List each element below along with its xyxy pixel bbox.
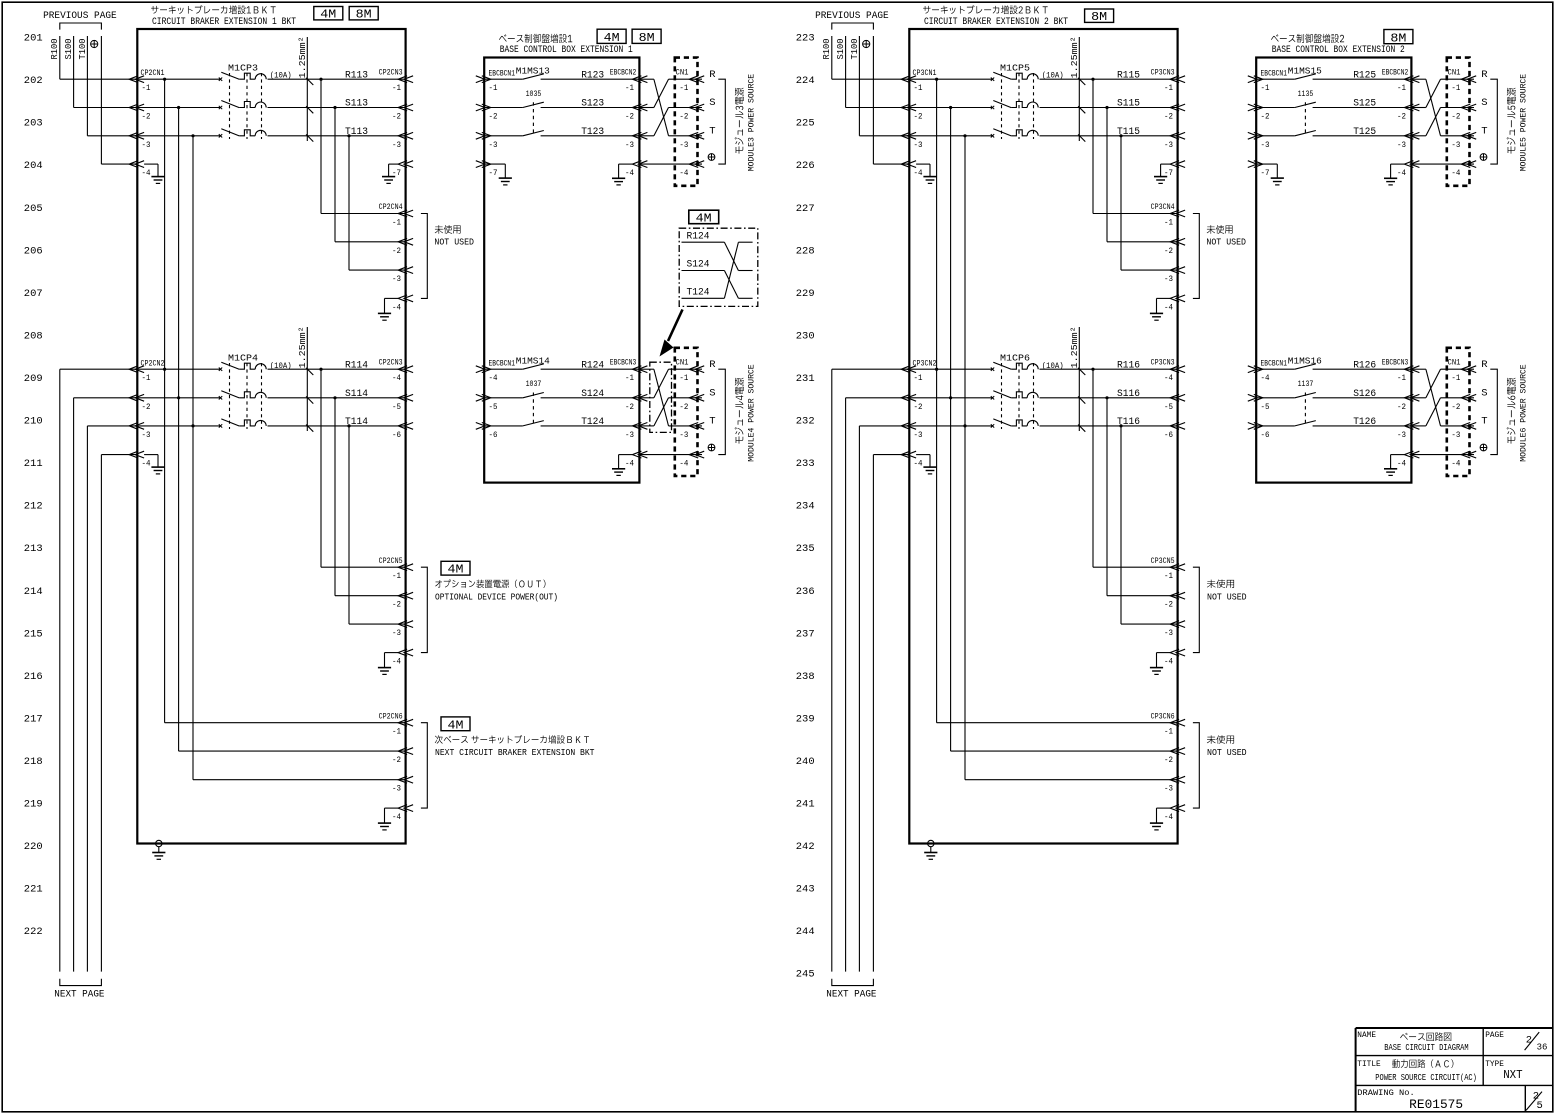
wire CP2CN2-3 to next page bbox=[87, 426, 137, 972]
label phase T bbox=[1481, 125, 1487, 137]
svg-text:-4: -4 bbox=[1451, 168, 1460, 178]
junction dot 3 on section2 input bbox=[963, 424, 966, 427]
wire crossover stubs (left) bbox=[639, 369, 654, 426]
connector CP3CN1 pin -3 bbox=[901, 132, 922, 149]
wire S126 bbox=[1313, 397, 1412, 399]
svg-text:-3: -3 bbox=[625, 430, 634, 440]
connector CN1 pin -2 bbox=[679, 394, 704, 411]
label S124 bbox=[581, 389, 604, 400]
svg-text:4M: 4M bbox=[604, 32, 620, 45]
wire T123 bbox=[541, 135, 640, 137]
wire internal bus 3 (input to CP2CN6) bbox=[193, 136, 406, 780]
svg-text:T100: T100 bbox=[850, 39, 860, 60]
breaker M1CP5 linkage bbox=[1002, 73, 1034, 139]
wire CN1-1 bbox=[669, 78, 703, 80]
wire CN1-3 bbox=[669, 135, 703, 137]
connector CP3CN6 pin -4 bbox=[1164, 805, 1185, 822]
connector EBCBCN1 pin -7 bbox=[1248, 161, 1270, 178]
wire tap to CP3CN4-2 bbox=[1107, 108, 1178, 242]
svg-text:236: 236 bbox=[796, 586, 815, 598]
label MODULE6 POWER SOURCE bbox=[1518, 364, 1528, 462]
wire CP2CN2-2 to breaker bbox=[137, 397, 220, 399]
wire tap to CP2CN5-1 bbox=[321, 369, 406, 567]
connector CP2CN1 pin -4 bbox=[129, 161, 150, 178]
label phase R bbox=[709, 69, 716, 81]
callout box 8M (base header) bbox=[632, 29, 661, 45]
junction dot 3 on section2 input bbox=[191, 424, 194, 427]
wire-size marker sec1 bbox=[297, 36, 308, 141]
svg-text:-1: -1 bbox=[392, 727, 401, 737]
svg-text:-2: -2 bbox=[1164, 755, 1173, 765]
connector EBCBCN3 pin -3 bbox=[625, 423, 647, 440]
label T116 bbox=[1117, 417, 1140, 428]
svg-text:S100: S100 bbox=[64, 39, 74, 60]
ground at CP3CN5-4 bbox=[1150, 653, 1170, 675]
svg-text:-4: -4 bbox=[489, 373, 498, 383]
label R116 bbox=[1117, 360, 1140, 371]
svg-text:218: 218 bbox=[24, 756, 43, 768]
svg-text:-2: -2 bbox=[625, 402, 634, 412]
connector CP2CN3 pin -6 bbox=[392, 423, 413, 440]
connector EBCBCN1 pin -1 bbox=[476, 76, 498, 93]
connector CN1 pin -2 bbox=[1451, 104, 1476, 121]
connector CP3CN2 name bbox=[913, 358, 937, 368]
module connector CN1 enclosure (dashed) bbox=[675, 58, 698, 186]
connector CP3CN3 pin -2 (sec1) bbox=[1164, 104, 1185, 121]
label M1CP4 bbox=[228, 353, 258, 364]
svg-text:-2: -2 bbox=[489, 112, 498, 122]
label R113 bbox=[345, 70, 368, 81]
label モジュール3電源 bbox=[735, 88, 744, 154]
next page bracket bbox=[60, 979, 102, 986]
wire CP3CN1-2 to breaker bbox=[909, 107, 992, 109]
label R126 bbox=[1353, 360, 1376, 371]
connector CN1 pin -1 bbox=[1451, 366, 1476, 383]
connector EBCBCN2 pin -3 bbox=[625, 132, 647, 149]
junction dot S116 bbox=[1105, 396, 1108, 399]
svg-text:204: 204 bbox=[24, 160, 43, 172]
svg-text:-1: -1 bbox=[1164, 571, 1173, 581]
svg-text:216: 216 bbox=[24, 671, 43, 683]
label M1CP3 bbox=[228, 62, 258, 73]
wire S123 bbox=[541, 107, 640, 109]
svg-text:R113: R113 bbox=[345, 70, 368, 81]
svg-text:POWER SOURCE CIRCUIT(AC): POWER SOURCE CIRCUIT(AC) bbox=[1375, 1073, 1477, 1083]
svg-text:M1CP4: M1CP4 bbox=[228, 353, 258, 364]
label R123 bbox=[581, 70, 604, 81]
svg-text:S116: S116 bbox=[1117, 389, 1140, 400]
wire CP3CN2-3 to breaker bbox=[909, 425, 992, 427]
svg-text:S100: S100 bbox=[836, 39, 846, 60]
line numbers 223-245 bbox=[796, 33, 815, 981]
wire crossover diagonal R to T bbox=[654, 369, 669, 426]
connector EBCBCN1 name (M1MS15) bbox=[1261, 69, 1288, 79]
svg-text:-2: -2 bbox=[142, 112, 151, 122]
svg-text:CP2CN2: CP2CN2 bbox=[141, 358, 165, 368]
svg-text:-1: -1 bbox=[392, 83, 401, 93]
wire crossover diagonal S to R bbox=[654, 79, 669, 107]
connector CP3CN3 name (sec1) bbox=[1151, 68, 1175, 78]
detail wire right 2 bbox=[738, 270, 752, 272]
wire T100 from previous page bbox=[87, 36, 137, 136]
svg-text:-7: -7 bbox=[1261, 168, 1270, 178]
svg-text:TITLE: TITLE bbox=[1357, 1059, 1380, 1069]
connector CP2CN5 pin -3 bbox=[392, 621, 413, 638]
label 1037 bbox=[526, 380, 542, 389]
connector CP2CN2 pin -4 bbox=[129, 451, 150, 468]
wire CN1-3 bbox=[1441, 425, 1475, 427]
svg-text:PREVIOUS PAGE: PREVIOUS PAGE bbox=[43, 11, 117, 22]
label T126 bbox=[1353, 417, 1376, 428]
earth symbol on PE bus bbox=[91, 40, 98, 47]
connector EBCBCN3 pin -2 bbox=[1397, 394, 1419, 411]
svg-text:NAME: NAME bbox=[1357, 1030, 1376, 1040]
svg-text:4M: 4M bbox=[448, 564, 464, 577]
ground at CP2CN6-4 bbox=[378, 808, 398, 830]
ground at EBCBCN1-7 bbox=[1256, 164, 1284, 185]
junction dot 1 on section1 input bbox=[935, 78, 938, 81]
svg-text:R115: R115 bbox=[1117, 70, 1140, 81]
connector CN1 pin -4 bbox=[1451, 161, 1476, 178]
svg-text:M1MS13: M1MS13 bbox=[516, 65, 550, 76]
connector EBCBCN3 pin -1 bbox=[625, 366, 647, 383]
highlight enclosure (dash-dot) on crossover bbox=[650, 362, 672, 432]
svg-text:230: 230 bbox=[796, 330, 815, 342]
svg-text:233: 233 bbox=[796, 458, 815, 470]
ground at EBCBCN1-7 bbox=[484, 164, 512, 185]
connector CP2CN4 name bbox=[379, 202, 403, 212]
svg-text:1037: 1037 bbox=[526, 380, 542, 389]
svg-text:PAGE: PAGE bbox=[1485, 1030, 1504, 1040]
label T100 bbox=[850, 39, 860, 60]
ground at EBCBCN2-4 bbox=[612, 164, 632, 185]
svg-text:-3: -3 bbox=[1164, 140, 1173, 150]
detail label S124 bbox=[687, 259, 710, 271]
connector CP2CN3 name (sec2) bbox=[379, 358, 403, 368]
connector CP2CN6 name bbox=[379, 711, 403, 721]
svg-text:224: 224 bbox=[796, 75, 815, 87]
connector CP3CN2 pin -2 bbox=[901, 394, 922, 411]
connector CP2CN6 pin -2 bbox=[392, 748, 413, 765]
svg-text:CN1: CN1 bbox=[676, 358, 689, 368]
connector EBCBCN1 name (M1MS16) bbox=[1261, 359, 1288, 369]
svg-text:-3: -3 bbox=[489, 140, 498, 150]
svg-text:8M: 8M bbox=[639, 32, 655, 45]
junction dot S114 bbox=[333, 396, 336, 399]
title block sheet 2/5 bbox=[1526, 1090, 1543, 1112]
wire crossover diagonal R to T bbox=[1426, 369, 1441, 426]
label T125 bbox=[1353, 127, 1376, 138]
module connector CN1 enclosure (dashed) bbox=[1447, 58, 1470, 186]
svg-text:S113: S113 bbox=[345, 99, 368, 110]
bracket CP3CN4 bbox=[1193, 214, 1199, 299]
svg-text:R125: R125 bbox=[1353, 70, 1376, 81]
label phase T bbox=[709, 416, 715, 428]
wire CP3CN2-1 to next page bbox=[832, 369, 910, 971]
svg-text:NOT USED: NOT USED bbox=[1206, 237, 1246, 248]
svg-text:T100: T100 bbox=[78, 39, 88, 60]
label earth symbol CN1 bbox=[708, 154, 715, 161]
svg-text:-1: -1 bbox=[914, 373, 923, 383]
connector CP3CN3 name (sec2) bbox=[1151, 358, 1175, 368]
svg-text:DRAWING No.: DRAWING No. bbox=[1357, 1088, 1414, 1098]
detail wire R124 left bbox=[682, 241, 725, 243]
junction dot 1 on section2 input bbox=[935, 368, 938, 371]
wire tap to CP3CN5-1 bbox=[1093, 369, 1178, 567]
label T100 bbox=[78, 39, 88, 60]
svg-text:-3: -3 bbox=[914, 430, 923, 440]
wire PE from previous page bbox=[101, 36, 137, 164]
connector CN1 pin -4 bbox=[679, 161, 704, 178]
connector EBCBCN2 pin -2 bbox=[625, 104, 647, 121]
svg-text:CP2CN3: CP2CN3 bbox=[379, 358, 403, 368]
svg-text:-5: -5 bbox=[489, 402, 498, 412]
svg-text:-2: -2 bbox=[1164, 600, 1173, 610]
svg-text:-1: -1 bbox=[142, 83, 151, 93]
svg-text:CN1: CN1 bbox=[1448, 358, 1461, 368]
connector CP3CN3 pin -5 bbox=[1164, 394, 1185, 411]
svg-text:1035: 1035 bbox=[526, 90, 542, 99]
connector EBCBCN2 name bbox=[1382, 68, 1409, 78]
wire tap to CP2CN5-2 bbox=[335, 398, 406, 596]
svg-text:-1: -1 bbox=[679, 373, 688, 383]
svg-text:-4: -4 bbox=[679, 459, 688, 469]
label T115 bbox=[1117, 127, 1140, 138]
svg-text:-2: -2 bbox=[1451, 112, 1460, 122]
connector CP3CN2 pin -1 bbox=[901, 366, 922, 383]
wire CN1-3 bbox=[1441, 135, 1475, 137]
svg-text:NOT USED: NOT USED bbox=[434, 237, 474, 248]
wire T100 from previous page bbox=[859, 36, 909, 136]
svg-text:231: 231 bbox=[796, 373, 815, 385]
label earth symbol CN1 bbox=[1480, 154, 1487, 161]
connector EBCBCN2 pin -1 bbox=[625, 76, 647, 93]
svg-text:8M: 8M bbox=[356, 9, 372, 22]
label M1MS14 bbox=[516, 356, 550, 367]
label 1135 bbox=[1298, 90, 1314, 99]
svg-text:R114: R114 bbox=[345, 360, 368, 371]
label NOT USED (CN4) bbox=[1206, 225, 1246, 248]
breaker M1CP6 linkage bbox=[1002, 363, 1034, 429]
detail wire right 1 bbox=[738, 241, 752, 243]
ground at CP2CN3-7 bbox=[382, 164, 398, 183]
label OPTIONAL DEVICE POWER(OUT) bbox=[435, 579, 558, 602]
label BASE CONTROL BOX EXTENSION 2 header bbox=[1271, 34, 1405, 56]
svg-text:243: 243 bbox=[796, 884, 815, 896]
connector CP2CN6 pin -4 bbox=[392, 805, 413, 822]
label PREVIOUS PAGE bbox=[815, 11, 889, 22]
svg-text:222: 222 bbox=[24, 926, 43, 938]
connector CP2CN1 pin -3 bbox=[129, 132, 150, 149]
wire crossover diagonal R to T bbox=[654, 79, 669, 136]
connector CP2CN3 name (sec1) bbox=[379, 68, 403, 78]
svg-text:8M: 8M bbox=[1390, 32, 1406, 45]
svg-text:R124: R124 bbox=[687, 230, 710, 242]
svg-text:-3: -3 bbox=[392, 140, 401, 150]
svg-text:T126: T126 bbox=[1353, 417, 1376, 428]
callout box 4M (cn6lab) bbox=[441, 717, 470, 732]
label S125 bbox=[1353, 99, 1376, 110]
svg-text:226: 226 bbox=[796, 160, 815, 172]
wire-size marker sec2 bbox=[1069, 326, 1080, 431]
label (10A) sec2 bbox=[270, 361, 292, 371]
connector CP2CN2 pin -3 bbox=[129, 423, 150, 440]
svg-text:CP3CN4: CP3CN4 bbox=[1151, 202, 1175, 212]
svg-text:-1: -1 bbox=[625, 83, 634, 93]
svg-text:-4: -4 bbox=[1164, 302, 1173, 312]
svg-text:R: R bbox=[1481, 69, 1488, 81]
svg-text:-4: -4 bbox=[392, 657, 401, 667]
bracket CP2CN5 bbox=[421, 567, 427, 652]
junction dot 2 on section1 input bbox=[949, 106, 952, 109]
label (10A) sec1 bbox=[1042, 71, 1064, 81]
connector CP3CN2 pin -3 bbox=[901, 423, 922, 440]
wire CP2CN2-2 to next page bbox=[74, 398, 138, 972]
wire-size slash sec2-3 bbox=[1078, 425, 1085, 432]
svg-text:235: 235 bbox=[796, 543, 815, 555]
svg-text:T: T bbox=[1481, 416, 1487, 428]
connector CN1 pin -4 bbox=[679, 451, 704, 468]
wire internal bus 2 (input to CP3CN6) bbox=[951, 108, 1178, 752]
label R115 bbox=[1117, 70, 1140, 81]
svg-text:-4: -4 bbox=[1164, 373, 1173, 383]
connector EBCBCN1 pin -2 bbox=[1248, 104, 1270, 121]
svg-text:-3: -3 bbox=[1261, 140, 1270, 150]
connector EBCBCN1 pin -6 bbox=[1248, 423, 1270, 440]
wire R126 bbox=[1313, 368, 1412, 370]
enclosure BASE CONTROL BOX EXTENSION 2 bbox=[1256, 58, 1411, 483]
svg-text:CIRCUIT BRAKER EXTENSION 1 BKT: CIRCUIT BRAKER EXTENSION 1 BKT bbox=[152, 17, 296, 28]
svg-text:-2: -2 bbox=[1164, 246, 1173, 256]
junction dot 2 on section2 input bbox=[949, 396, 952, 399]
connector CN1 name bbox=[1448, 358, 1461, 368]
label PREVIOUS PAGE bbox=[43, 11, 117, 22]
wire CP3CN2-3 to next page bbox=[859, 426, 909, 972]
wire-size slash 2 bbox=[1078, 106, 1085, 113]
junction dot 2 on section1 input bbox=[177, 106, 180, 109]
svg-text:8M: 8M bbox=[1091, 11, 1107, 24]
svg-text:EBCBCN1: EBCBCN1 bbox=[1261, 69, 1288, 79]
connector CP2CN1 pin -1 bbox=[129, 76, 150, 93]
svg-text:CN1: CN1 bbox=[1448, 68, 1461, 78]
connector EBCBCN3 pin -4 bbox=[625, 451, 647, 468]
svg-text:-6: -6 bbox=[392, 430, 401, 440]
label earth symbol CN1 bbox=[1480, 444, 1487, 451]
wire CN1-2 bbox=[1441, 397, 1475, 399]
svg-text:-4: -4 bbox=[142, 168, 151, 178]
connector CP3CN5 name bbox=[1151, 556, 1175, 566]
svg-text:M1CP5: M1CP5 bbox=[1000, 62, 1030, 73]
wire-size slash sec2-2 bbox=[306, 396, 313, 403]
svg-text:S124: S124 bbox=[581, 389, 604, 400]
wire R124 bbox=[541, 368, 640, 370]
connector CN1 pin -4 bbox=[1451, 451, 1476, 468]
wire CP3CN2-2 to breaker bbox=[909, 397, 992, 399]
label phase S bbox=[709, 97, 715, 109]
wire internal bus 2 (input to CP2CN6) bbox=[179, 108, 406, 752]
svg-text:EBCBCN3: EBCBCN3 bbox=[1382, 358, 1409, 368]
svg-text:-3: -3 bbox=[142, 430, 151, 440]
svg-text:-3: -3 bbox=[679, 140, 688, 150]
wire R100 from previous page bbox=[832, 36, 910, 79]
svg-text:-3: -3 bbox=[1164, 274, 1173, 284]
label R124 bbox=[581, 360, 604, 371]
svg-text:-5: -5 bbox=[1164, 402, 1173, 412]
connector CN1 pin -2 bbox=[679, 104, 704, 121]
svg-text:-1: -1 bbox=[1397, 373, 1406, 383]
label NEXT CIRCUIT BRAKER EXTENSION BKT bbox=[435, 735, 595, 758]
connector CP2CN3 pin -5 bbox=[392, 394, 413, 411]
label T123 bbox=[581, 127, 604, 138]
label NOT USED (CN4) bbox=[434, 225, 474, 248]
svg-text:-1: -1 bbox=[1451, 373, 1460, 383]
svg-text:214: 214 bbox=[24, 586, 43, 598]
wire CP3CN1-1 to breaker bbox=[909, 78, 992, 80]
wire T125 bbox=[1313, 135, 1412, 137]
breaker M1CP4 linkage bbox=[230, 363, 262, 429]
next page bracket bbox=[832, 979, 874, 986]
svg-text:R116: R116 bbox=[1117, 360, 1140, 371]
breaker M1CP5 pole 2 bbox=[991, 101, 1038, 110]
svg-text:-2: -2 bbox=[914, 402, 923, 412]
wire-size slash sec2-1 bbox=[1078, 368, 1085, 375]
svg-text:232: 232 bbox=[796, 416, 815, 428]
svg-text:-3: -3 bbox=[1397, 430, 1406, 440]
svg-text:(10A): (10A) bbox=[270, 71, 292, 81]
label S114 bbox=[345, 389, 368, 400]
connector CN1 pin -3 bbox=[679, 132, 704, 149]
callout box 4M (cn5lab) bbox=[441, 561, 470, 576]
svg-text:RE01575: RE01575 bbox=[1409, 1098, 1463, 1112]
wire CN1-1 bbox=[1441, 368, 1475, 370]
label phase S bbox=[1481, 97, 1487, 109]
svg-text:-1: -1 bbox=[489, 83, 498, 93]
svg-text:-5: -5 bbox=[392, 402, 401, 412]
wire T126 bbox=[1313, 425, 1412, 427]
detail wire right 3 bbox=[738, 297, 752, 299]
svg-text:EBCBCN2: EBCBCN2 bbox=[1382, 68, 1409, 78]
wire CN1-2 bbox=[1441, 107, 1475, 109]
svg-text:R126: R126 bbox=[1353, 360, 1376, 371]
connector CN1 name bbox=[1448, 68, 1461, 78]
detail label T124 bbox=[687, 287, 710, 299]
svg-text:-4: -4 bbox=[392, 302, 401, 312]
svg-text:-5: -5 bbox=[1261, 402, 1270, 412]
svg-text:-2: -2 bbox=[679, 402, 688, 412]
junction dot T113 bbox=[347, 134, 350, 137]
svg-text:S125: S125 bbox=[1353, 99, 1376, 110]
svg-text:S: S bbox=[1481, 97, 1487, 109]
connector CP3CN4 pin -1 bbox=[1164, 210, 1185, 227]
breaker M1CP4 pole 1 bbox=[219, 362, 266, 371]
svg-text:-2: -2 bbox=[1397, 402, 1406, 412]
svg-text:-3: -3 bbox=[392, 274, 401, 284]
connector CP3CN2 pin -4 bbox=[901, 451, 922, 468]
svg-text:(10A): (10A) bbox=[270, 361, 292, 371]
svg-text:219: 219 bbox=[24, 799, 43, 811]
svg-text:NOT USED: NOT USED bbox=[1207, 747, 1247, 758]
junction dot T114 bbox=[347, 424, 350, 427]
label 1137 bbox=[1298, 380, 1314, 389]
label T113 bbox=[345, 127, 368, 138]
svg-text:225: 225 bbox=[796, 118, 815, 130]
svg-text:M1MS14: M1MS14 bbox=[516, 356, 550, 367]
wire S116 bbox=[1040, 397, 1178, 399]
svg-text:CP2CN1: CP2CN1 bbox=[141, 68, 165, 78]
wire CP2CN1-1 to breaker bbox=[137, 78, 220, 80]
connector CP2CN4 pin -3 bbox=[392, 267, 413, 284]
svg-text:206: 206 bbox=[24, 245, 43, 257]
